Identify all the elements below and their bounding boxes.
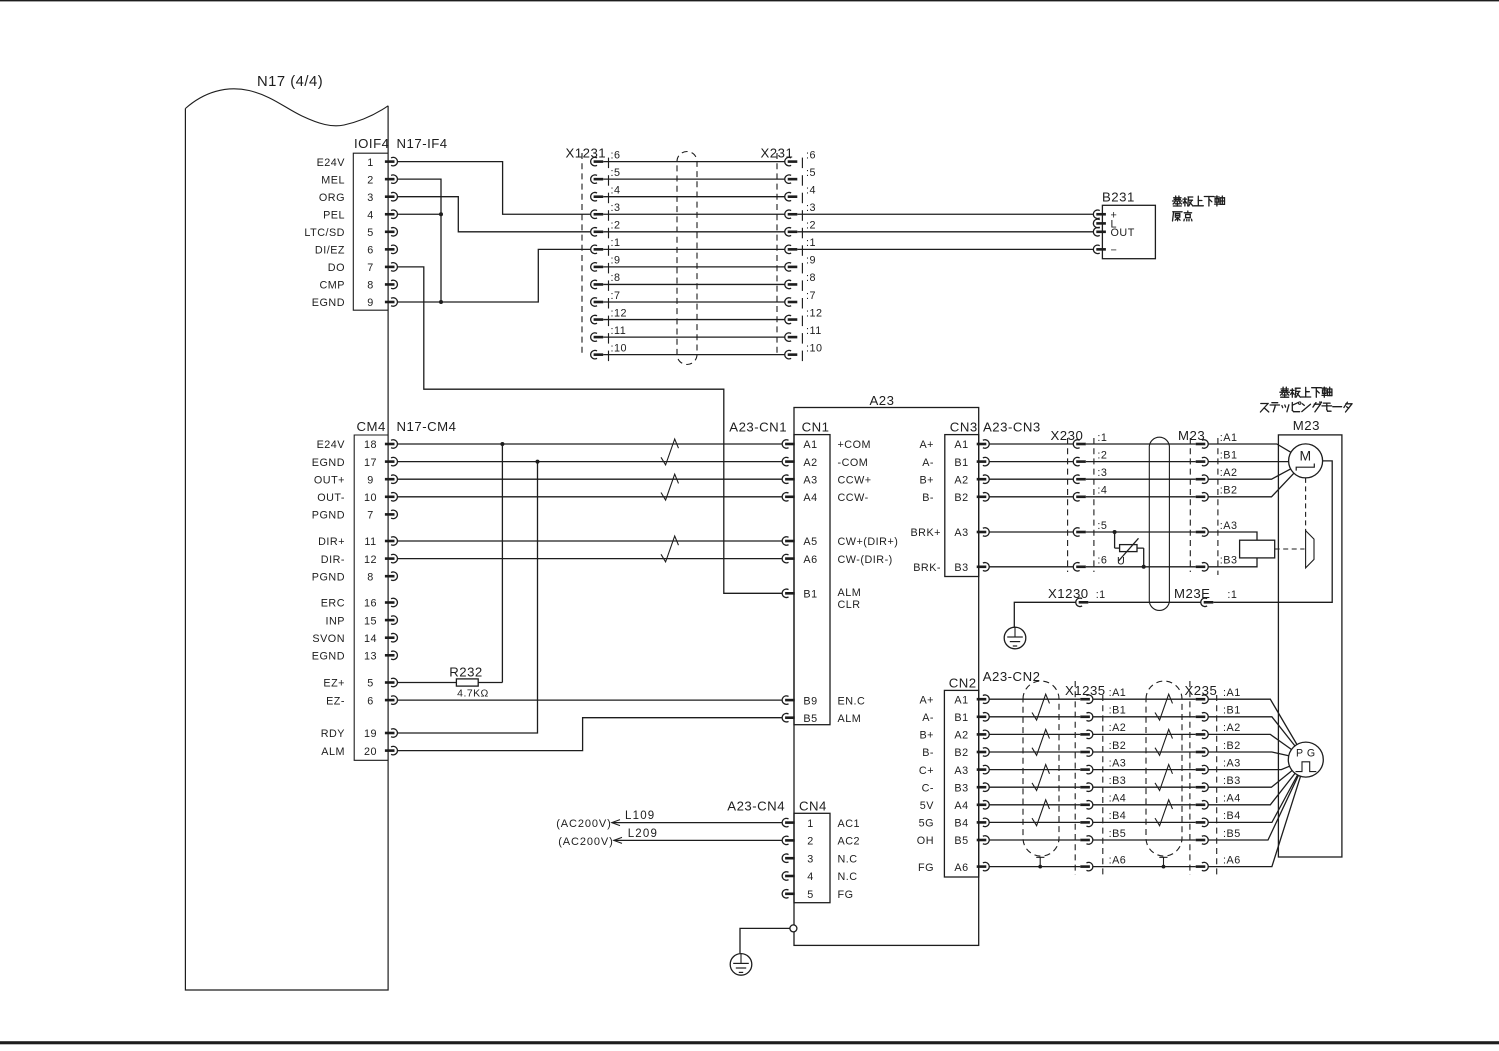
wire CN2 B4 to X1235 (989, 821, 1080, 823)
pin M23:B1 (1196, 449, 1238, 465)
svg-text::3: :3 (611, 202, 621, 214)
wire DIR+ CM4-11 to CN1 A5 (397, 540, 782, 542)
svg-text:P G: P G (1296, 747, 1316, 759)
pin X230:2 (1073, 449, 1107, 465)
svg-text:LTC/SD: LTC/SD (304, 227, 345, 239)
connector CM4 N17-CM4 (312, 419, 457, 760)
pin X231:11 (785, 325, 822, 344)
pin X235:B1 (1196, 705, 1241, 721)
cable shield X1235-X235 with twisted pairs (1146, 681, 1182, 868)
pin CN3 B2 (922, 492, 989, 504)
wire X1235 to X235 row A2 (1093, 733, 1196, 735)
wire PEL pin4 (397, 213, 441, 215)
wire EZ+ CM4-5 via R232 to E24V junction (397, 444, 502, 683)
svg-text:X1231: X1231 (566, 146, 607, 161)
wire CN3 B1 to X230:2 (989, 461, 1073, 463)
svg-text:N.C: N.C (838, 871, 858, 883)
svg-text:6: 6 (367, 695, 374, 707)
pin CN3 A3 (910, 527, 989, 539)
svg-text:FG: FG (918, 862, 934, 874)
svg-text:PEL: PEL (323, 209, 345, 221)
svg-text:IOIF4: IOIF4 (354, 136, 389, 151)
pin X1235:A4 (1080, 793, 1126, 809)
svg-text::A1: :A1 (1109, 687, 1127, 699)
pin CM4-16 ERC (321, 598, 398, 610)
svg-text:A3: A3 (954, 765, 968, 777)
svg-text::A4: :A4 (1109, 793, 1127, 805)
pin CN2 B3 (922, 782, 990, 794)
pin X1235:A1 (1080, 687, 1126, 703)
svg-text::10: :10 (611, 342, 628, 354)
svg-text:5: 5 (367, 678, 374, 690)
svg-text:EGND: EGND (312, 651, 345, 663)
svg-text:CM4: CM4 (357, 419, 386, 434)
svg-text::11: :11 (806, 325, 822, 337)
wire DO pin7 to A23-CN1 B1 (397, 267, 782, 593)
wire X235A3 to PG (1208, 766, 1289, 769)
svg-text:EGND: EGND (312, 457, 345, 469)
svg-text:B+: B+ (919, 474, 934, 486)
svg-text:9: 9 (367, 297, 374, 309)
svg-text:EZ+: EZ+ (323, 678, 345, 690)
connector A23-CN3 (910, 420, 1040, 577)
svg-text:AC2: AC2 (838, 836, 861, 848)
wire L209 (AC200V) to CN4-2 (558, 828, 782, 848)
svg-text:N17 (4/4): N17 (4/4) (257, 74, 323, 90)
wire CN2 A2 to X1235 (989, 733, 1080, 735)
svg-text::1: :1 (1227, 589, 1237, 601)
wire OUT- CM4-10 to CN1 A4 (397, 496, 782, 498)
svg-text:A4: A4 (954, 800, 968, 812)
svg-text:ERC: ERC (321, 598, 345, 610)
svg-text:R232: R232 (449, 665, 483, 680)
pin M23:A2 (1196, 467, 1238, 483)
motor M23 symbol (1289, 444, 1323, 478)
pin X231:6 (785, 149, 816, 168)
wire ALM CM4-20 to CN1 B5 (397, 718, 782, 751)
ground (shield earth) (1004, 627, 1026, 649)
svg-text::5: :5 (1097, 520, 1107, 532)
pin CN1 A5 (782, 536, 898, 548)
svg-text:C-: C- (922, 782, 934, 794)
svg-text:5: 5 (367, 227, 374, 239)
pin CN1 B9 (782, 695, 865, 707)
svg-text:6: 6 (367, 245, 374, 257)
svg-text:OUT-: OUT- (317, 492, 345, 504)
connector X1230 (1048, 586, 1106, 607)
svg-text::A3: :A3 (1109, 757, 1127, 769)
pin X1231:1 (591, 237, 621, 256)
svg-text:CN4: CN4 (799, 798, 827, 813)
earth tap on A23 (740, 925, 797, 953)
connector IOIF4 N17-IF4 (304, 136, 447, 310)
pin X230:4 (1073, 485, 1107, 501)
svg-text:SVON: SVON (312, 633, 345, 645)
svg-text:B3: B3 (954, 562, 968, 574)
pin M23:B2 (1196, 485, 1238, 501)
pin CM4-20 ALM (321, 746, 397, 758)
pin CN2 A4 (920, 800, 989, 812)
svg-text::12: :12 (611, 307, 628, 319)
svg-text:N17-CM4: N17-CM4 (397, 419, 457, 434)
svg-text:10: 10 (364, 492, 377, 504)
connector M23 (cable side) (1178, 428, 1238, 575)
wire M23:A2 to motor (1208, 469, 1290, 479)
wire CN2 B3 to X1235 (989, 786, 1080, 788)
pin CN2 B5 (917, 835, 989, 847)
svg-text:A23-CN3: A23-CN3 (983, 420, 1041, 435)
wire X1235 to X235 row B2 (1093, 751, 1196, 753)
pin CM4-19 RDY (321, 728, 398, 740)
drawing frame bottom border (0, 1041, 1499, 1044)
drawing frame top border (0, 0, 1499, 1)
pin CN2 A3 (919, 765, 989, 777)
svg-text:15: 15 (364, 615, 377, 627)
cable wires X1231-X231 (12 cores) (603, 162, 785, 355)
wire EGND CM4-17 to CN1 A2 (397, 461, 782, 463)
svg-text:A-: A- (922, 457, 934, 469)
pin CN2 B1 (922, 712, 989, 724)
pin X1231:3 (591, 202, 621, 221)
wire CN2 B1 to X1235 (989, 716, 1080, 718)
svg-text:X230: X230 (1051, 428, 1084, 443)
pin M23:A1 (1196, 432, 1238, 448)
pin X1235:A3 (1080, 757, 1126, 773)
wire X235B2 to PG (1208, 752, 1288, 756)
svg-text:B1: B1 (803, 589, 817, 601)
wire X235B3 to PG (1208, 771, 1292, 788)
svg-text:11: 11 (364, 536, 376, 548)
svg-text::A6: :A6 (1223, 854, 1241, 866)
pin IOIF4-7 DO (328, 262, 398, 274)
pin CM4-13 EGND (312, 651, 398, 663)
svg-text::1: :1 (611, 237, 621, 249)
svg-text:BRK+: BRK+ (910, 527, 941, 539)
svg-text::B1: :B1 (1109, 705, 1127, 717)
pin X1231:11 (591, 325, 627, 344)
wire X235B4 to PG (1208, 775, 1297, 822)
svg-text:7: 7 (367, 510, 374, 522)
svg-text:B5: B5 (803, 713, 817, 725)
pin X1235:B3 (1080, 775, 1126, 791)
pin X1231:10 (591, 342, 627, 361)
svg-text::8: :8 (611, 272, 621, 284)
svg-text:A1: A1 (954, 694, 968, 706)
svg-text:B9: B9 (803, 695, 817, 707)
wire E24V pin1 to X1231:3 (397, 162, 590, 215)
pin X235:B4 (1196, 810, 1241, 826)
pin CN1 A3 (782, 474, 871, 486)
pin CN4-1 AC1 (782, 818, 860, 830)
wire M23E to motor frame (1213, 461, 1332, 602)
pin X1231:2 (591, 220, 621, 239)
pin X235:A2 (1196, 722, 1241, 738)
svg-text::B4: :B4 (1109, 810, 1127, 822)
svg-text::A1: :A1 (1220, 432, 1238, 444)
pin M23:A3 (1196, 520, 1238, 536)
wire X230 to M23 row B2 (1086, 496, 1196, 498)
svg-text::11: :11 (611, 325, 627, 337)
wire CN2 A6 to X1235 (989, 866, 1080, 868)
svg-text::4: :4 (611, 185, 621, 197)
svg-text:CN2: CN2 (949, 675, 977, 690)
varistor U (surge absorber) (1113, 530, 1146, 569)
pin X235:B3 (1196, 775, 1241, 791)
svg-text:EZ-: EZ- (326, 695, 345, 707)
pin X1231:5 (591, 167, 621, 186)
svg-text:A6: A6 (803, 554, 817, 566)
motor unit M23 box (1278, 418, 1342, 857)
pin X235:A1 (1196, 687, 1241, 703)
svg-text::A3: :A3 (1220, 520, 1238, 532)
pin CN1 B5 (782, 713, 861, 725)
pin IOIF4-2 MEL (321, 174, 397, 186)
pin CN1 A2 (782, 457, 868, 469)
pin CM4-12 DIR- (321, 554, 398, 566)
wire M23:B3 to brake coil (1208, 558, 1257, 567)
wire X1230 to earth (1014, 602, 1075, 627)
pin X1235:B4 (1080, 810, 1126, 826)
svg-text::A2: :A2 (1223, 722, 1241, 734)
pin X231:5 (785, 167, 816, 186)
svg-text:5V: 5V (920, 800, 935, 812)
svg-text::B2: :B2 (1223, 740, 1241, 752)
svg-text:C+: C+ (919, 765, 934, 777)
wire X1235 to X235 row A6 (1093, 866, 1196, 868)
svg-text:AC1: AC1 (838, 818, 861, 830)
svg-text::5: :5 (806, 167, 816, 179)
svg-text:A5: A5 (803, 536, 817, 548)
pin X231:8 (785, 272, 816, 291)
wire X231:1 to B231 - (797, 248, 1093, 250)
pin IOIF4-1 E24V (317, 157, 398, 169)
svg-text:CW+(DIR+): CW+(DIR+) (838, 536, 899, 548)
svg-text:DI/EZ: DI/EZ (315, 245, 345, 257)
svg-text:A23-CN4: A23-CN4 (727, 798, 785, 813)
pin CM4-6 EZ- (326, 695, 397, 707)
svg-text:M23: M23 (1293, 418, 1320, 433)
wire M23:A3 to brake coil (1208, 532, 1257, 540)
svg-text::2: :2 (1097, 449, 1107, 461)
svg-text:−: − (1111, 245, 1118, 257)
pin X1235:A2 (1080, 722, 1126, 738)
svg-text::B5: :B5 (1109, 828, 1127, 840)
pin B231 - (1093, 245, 1117, 257)
wire X230 to M23 row A3 (1086, 531, 1196, 533)
svg-text:3: 3 (367, 192, 374, 204)
svg-text::A6: :A6 (1109, 854, 1127, 866)
break marks on CM4-CN1 harness (661, 439, 679, 562)
svg-text:A3: A3 (803, 474, 817, 486)
pin CM4-11 DIR+ (318, 536, 397, 548)
svg-text:9: 9 (367, 474, 374, 486)
svg-text:X235: X235 (1185, 683, 1218, 698)
pin CN3 A2 (919, 474, 989, 486)
svg-text:5G: 5G (919, 818, 934, 830)
pin X1231:8 (591, 272, 621, 291)
connector A23-CN4 (727, 798, 860, 902)
pin CM4-7 PGND (312, 510, 398, 522)
pin X235:A4 (1196, 793, 1241, 809)
svg-text:CLR: CLR (838, 599, 861, 611)
cable shield X230-M23 (1149, 437, 1169, 610)
wire CN2 B2 to X1235 (989, 751, 1080, 753)
pin X230:3 (1073, 467, 1107, 483)
wire L109 (AC200V) to CN4-1 (556, 810, 782, 830)
wire X1235 to X235 row A1 (1093, 698, 1196, 700)
pin X1231:4 (591, 185, 621, 204)
svg-text:B5: B5 (954, 835, 968, 847)
svg-text:19: 19 (364, 728, 377, 740)
pin IOIF4-8 CMP (320, 280, 398, 292)
svg-text::B1: :B1 (1223, 705, 1241, 717)
resistor R232 4.7KΩ (449, 665, 489, 700)
wire EZ- CM4-6 to CN1 B9 (397, 699, 782, 701)
connector X230 (1051, 428, 1108, 572)
svg-text:A23: A23 (870, 393, 895, 408)
svg-text:M23E: M23E (1174, 586, 1210, 601)
wire X230 to M23 row B1 (1086, 461, 1196, 463)
wire CN2 A1 to X1235 (989, 698, 1080, 700)
svg-text::8: :8 (806, 272, 816, 284)
pin X1231:6 (591, 149, 621, 168)
pin X230:1 (1073, 432, 1107, 448)
svg-text:A+: A+ (919, 694, 934, 706)
pin CN3 B1 (922, 457, 989, 469)
svg-text:CW-(DIR-): CW-(DIR-) (838, 554, 893, 566)
pin CN1 A6 (782, 554, 893, 566)
pin IOIF4-4 PEL (323, 209, 397, 221)
wire X235B1 to PG (1208, 717, 1295, 746)
svg-text:B+: B+ (919, 730, 934, 742)
junction E24V/R232 (500, 442, 504, 446)
pin IOIF4-6 DI/EZ (315, 245, 398, 257)
svg-text:CMP: CMP (320, 280, 346, 292)
wire E24V CM4-18 to CN1 A1 (397, 443, 782, 445)
svg-text::B5: :B5 (1223, 828, 1241, 840)
wire X1235 to X235 row B3 (1093, 786, 1196, 788)
ground (protective earth) (730, 954, 752, 976)
pin M23:B3 (1196, 555, 1238, 571)
junction PEL/MEL (439, 212, 443, 216)
svg-text:CCW+: CCW+ (838, 474, 872, 486)
wire X1230 to M23E (1088, 601, 1200, 603)
wire X230 to M23 row B3 (1086, 566, 1196, 568)
wire CN2 B5 to X1235 (989, 839, 1080, 841)
pin CN4-2 AC2 (782, 836, 860, 848)
svg-text::12: :12 (806, 307, 823, 319)
brake actuator (1275, 478, 1314, 568)
wire X235A4 to PG (1208, 773, 1295, 804)
wire X1235 to X235 row A4 (1093, 804, 1196, 806)
wire X235B5 to PG (1208, 775, 1298, 840)
pin CN1 A1 (782, 439, 871, 451)
svg-text:8: 8 (367, 280, 374, 292)
svg-text::B2: :B2 (1220, 485, 1238, 497)
pin CN4-3 N.C (782, 853, 857, 865)
svg-text:RDY: RDY (321, 728, 345, 740)
svg-text:A1: A1 (954, 439, 968, 451)
pin X231:10 (785, 342, 823, 361)
svg-text:EN.C: EN.C (838, 695, 866, 707)
svg-text:B1: B1 (954, 712, 968, 724)
svg-text:A23-CN1: A23-CN1 (729, 420, 787, 435)
wire OUT+ CM4-9 to CN1 A3 (397, 478, 782, 480)
wire CN3 B3 to X230:6 (989, 566, 1073, 568)
pin X231:2 (785, 220, 816, 239)
svg-text::B1: :B1 (1220, 449, 1238, 461)
pin B231 + (1093, 210, 1117, 222)
svg-text:5: 5 (807, 889, 814, 901)
wire X235A6 to PG (1208, 776, 1300, 866)
svg-text:DO: DO (328, 262, 345, 274)
svg-text:16: 16 (364, 598, 377, 610)
pin CN2 A1 (919, 694, 989, 706)
svg-text:X231: X231 (761, 146, 794, 161)
svg-text:B4: B4 (954, 818, 968, 830)
svg-text:B-: B- (922, 492, 934, 504)
svg-text::3: :3 (806, 202, 816, 214)
driver unit A23 (794, 393, 979, 945)
svg-text:1: 1 (807, 818, 814, 830)
svg-text:MEL: MEL (321, 174, 345, 186)
svg-text::3: :3 (1097, 467, 1107, 479)
svg-text:A+: A+ (919, 439, 934, 451)
svg-text:20: 20 (364, 746, 377, 758)
svg-text:PGND: PGND (312, 571, 345, 583)
pin CN4-5 FG (782, 889, 853, 901)
svg-text:A-: A- (922, 712, 934, 724)
svg-text:DIR+: DIR+ (318, 536, 345, 548)
svg-text:17: 17 (364, 457, 377, 469)
pin X1235:B5 (1080, 828, 1126, 844)
pin X230:5 (1073, 520, 1107, 536)
wire RDY CM4-19 to EGND junction (397, 462, 537, 733)
svg-text::B3: :B3 (1220, 555, 1238, 567)
svg-text::B3: :B3 (1223, 775, 1241, 787)
svg-text:FG: FG (838, 889, 854, 901)
connector A23-CN1 (729, 420, 898, 725)
connector A23-CN2 (917, 669, 1041, 877)
cable shield CN2-X1235 with twisted pairs (1023, 681, 1059, 868)
pin CN3 A1 (919, 439, 989, 451)
svg-text:A1: A1 (803, 439, 817, 451)
wire CN3 A1 to X230:1 (989, 443, 1073, 445)
pin CM4-17 EGND (312, 457, 398, 469)
svg-text:N17-IF4: N17-IF4 (397, 136, 448, 151)
svg-text:A23-CN2: A23-CN2 (983, 669, 1041, 684)
svg-text:PGND: PGND (312, 510, 345, 522)
wire DIR- CM4-12 to CN1 A6 (397, 558, 782, 560)
svg-text:INP: INP (326, 615, 346, 627)
connector X231 (761, 146, 823, 362)
svg-text::2: :2 (611, 220, 621, 232)
pin X235:B5 (1196, 828, 1241, 844)
wire M23:A1 to motor (1208, 444, 1291, 452)
wire M23:B1 to motor (1208, 461, 1288, 463)
module N17 (4/4) outline (185, 74, 388, 990)
svg-text:B231: B231 (1102, 190, 1135, 205)
svg-text:X1235: X1235 (1065, 683, 1106, 698)
svg-text::2: :2 (806, 220, 816, 232)
wire X230 to M23 row A2 (1086, 478, 1196, 480)
encoder PG symbol (1288, 742, 1323, 777)
svg-text:ORG: ORG (319, 192, 345, 204)
svg-text::B2: :B2 (1109, 740, 1127, 752)
svg-text:12: 12 (364, 554, 377, 566)
pin X231:7 (785, 290, 816, 309)
pin X1235:B2 (1080, 740, 1126, 756)
